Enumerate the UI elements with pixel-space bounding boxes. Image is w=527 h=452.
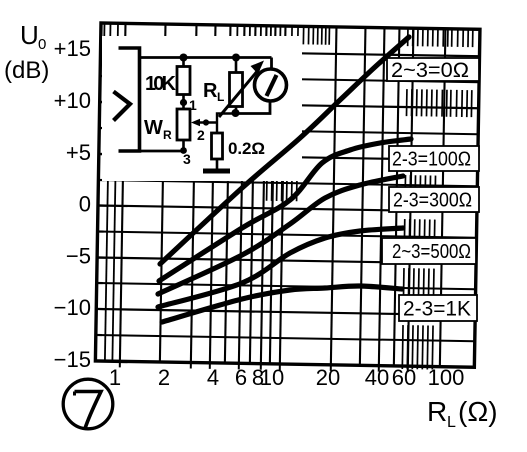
svg-text:(Ω): (Ω) (458, 396, 498, 427)
svg-text:R: R (163, 128, 172, 142)
svg-text:6: 6 (235, 365, 247, 390)
top edge extra half-step ticks (104, 23, 280, 40)
wire: amp bottom rail to node 3 (140, 150, 186, 153)
svg-text:R: R (427, 396, 447, 427)
svg-text:100: 100 (428, 365, 465, 390)
potentiometer WR body (177, 109, 190, 151)
svg-text:0.2Ω: 0.2Ω (228, 139, 265, 158)
svg-text:−15: −15 (54, 347, 91, 372)
svg-text:10: 10 (260, 365, 284, 390)
op-amp U1 (amplifier symbol) (114, 48, 140, 151)
vertical log gridlines (105, 23, 446, 367)
svg-text:2~3=0Ω: 2~3=0Ω (391, 59, 469, 82)
svg-text:2~3=500Ω: 2~3=500Ω (392, 241, 471, 263)
minor log tick combs (264, 26, 473, 370)
x tick labels (109, 365, 464, 390)
svg-text:10K: 10K (145, 73, 177, 95)
label box 2~3=0 ohm (387, 58, 479, 82)
svg-text:+5: +5 (66, 140, 91, 165)
resistor 10K (177, 58, 190, 110)
figure number 7 in circle (63, 379, 113, 429)
wire: amp output top rail (140, 56, 272, 59)
svg-text:2-3=100Ω: 2-3=100Ω (392, 149, 471, 171)
svg-text:2: 2 (158, 365, 170, 390)
curve 2-3=100 ohm (159, 139, 411, 281)
junction dot: top rail / RL (232, 54, 240, 62)
x axis title RL(ohm) (427, 396, 498, 431)
svg-text:−10: −10 (54, 295, 91, 320)
inset schematic background (102, 36, 302, 181)
curve 2~3=0 ohm (160, 37, 409, 264)
svg-text:60: 60 (392, 365, 416, 390)
svg-text:1: 1 (109, 365, 121, 390)
svg-text:U: U (20, 20, 39, 50)
resistor RL (variable) (230, 58, 243, 114)
junction dot: RL bottom node (232, 109, 240, 117)
horizontal gridlines (2.5 dB steps) (96, 50, 480, 341)
svg-text:W: W (144, 117, 163, 139)
y tick labels (54, 36, 91, 372)
curve 2-3=300 ohm (158, 176, 403, 294)
svg-text:L: L (217, 90, 224, 104)
curve 2-3=1K (162, 286, 402, 322)
RL variable arrow (219, 61, 264, 118)
svg-text:3: 3 (183, 151, 191, 167)
svg-text:20: 20 (316, 365, 340, 390)
wire: RL node to 0.2ohm (217, 114, 236, 134)
curve 2~3=500 ohm (158, 228, 403, 307)
svg-text:0: 0 (79, 192, 91, 217)
meter M1 (255, 58, 287, 102)
label box 2-3=100 ohm (389, 146, 479, 171)
junction dot: top rail / 10K (180, 54, 188, 62)
node 3 (junction dot) (180, 147, 187, 154)
label box 2-3=300 ohm (389, 187, 479, 212)
svg-text:L: L (447, 414, 456, 431)
svg-text:−5: −5 (66, 244, 91, 269)
ground (203, 169, 230, 174)
svg-text:+15: +15 (54, 36, 91, 61)
label box 2~3=500 ohm (382, 238, 476, 264)
svg-text:0: 0 (38, 36, 46, 53)
svg-text:R: R (203, 80, 218, 102)
label box 2-3=1K (399, 295, 477, 321)
svg-text:(dB): (dB) (4, 57, 49, 84)
y axis title U0 (dB) (4, 20, 49, 84)
node 1 (junction dot) (180, 99, 187, 106)
svg-text:2: 2 (197, 127, 205, 143)
svg-text:+10: +10 (54, 88, 91, 113)
wiper arrow of WR (node 2) (191, 119, 217, 126)
svg-text:4: 4 (207, 365, 219, 390)
svg-text:2-3=1K: 2-3=1K (403, 298, 471, 321)
svg-text:2-3=300Ω: 2-3=300Ω (393, 190, 472, 212)
y-axis inner ticks (96, 50, 110, 335)
svg-text:40: 40 (365, 365, 389, 390)
x-axis outer ticks (120, 361, 408, 372)
wire: RL node to meter bottom (236, 101, 271, 114)
chart frame (95, 23, 480, 367)
resistor 0.2 ohm (212, 133, 223, 170)
